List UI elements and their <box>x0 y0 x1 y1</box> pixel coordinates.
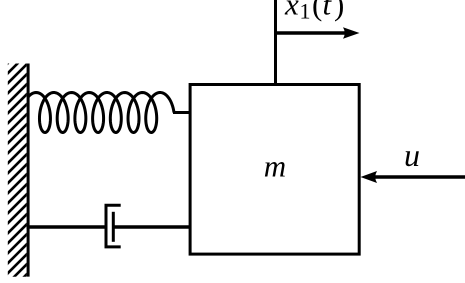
svg-text:u: u <box>404 137 420 173</box>
svg-text:1: 1 <box>300 0 311 24</box>
svg-text:t: t <box>323 0 333 22</box>
svg-text:x: x <box>284 0 299 22</box>
svg-text:(: ( <box>312 0 322 22</box>
svg-text:m: m <box>264 149 286 184</box>
svg-text:): ) <box>334 0 344 22</box>
